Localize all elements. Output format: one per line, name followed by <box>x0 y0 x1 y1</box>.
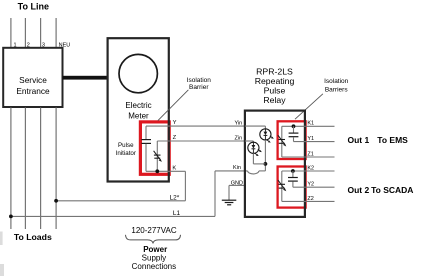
wire: neutral top <box>55 18 57 48</box>
svg-text:Y1: Y1 <box>307 136 314 142</box>
svg-text:Kin: Kin <box>233 165 241 171</box>
wire: K bottom line in meter <box>146 170 185 172</box>
wire: line 1 bottom <box>10 108 12 230</box>
electric meter box <box>108 38 169 181</box>
wire: line 3 top <box>40 18 42 48</box>
wire: line 2 top <box>24 18 26 48</box>
svg-text:Isolation: Isolation <box>187 77 212 84</box>
svg-text:Barrier: Barrier <box>189 84 209 91</box>
meter dial circle <box>119 54 157 92</box>
edge artifact 1 <box>0 232 3 246</box>
wire: line 1 top <box>10 18 12 48</box>
wire: Yin into LED1 <box>245 125 266 127</box>
svg-text:K: K <box>172 165 176 171</box>
capacitor C3 <box>292 171 294 177</box>
red isolation outline 2 in relay <box>278 167 306 208</box>
callout leader line (meter) <box>158 90 189 121</box>
svg-text:Pulse: Pulse <box>118 142 134 149</box>
svg-text:Relay: Relay <box>263 95 286 105</box>
wire: pulse initiator left vertical lower <box>145 144 147 172</box>
wire: pulse initiator transistor vertical <box>156 141 158 171</box>
module 2 left vertical <box>281 171 283 201</box>
svg-text:Barriers: Barriers <box>325 87 349 94</box>
wire: Z line meter to relay <box>157 140 245 142</box>
svg-text:Z: Z <box>173 135 177 141</box>
wire: GND line into relay <box>229 184 245 186</box>
wire: Zin into LED2 <box>245 140 254 142</box>
wire: common cathode drop <box>264 164 266 171</box>
wire: LED1 to common <box>264 140 266 164</box>
wire: K drop to L2 <box>184 171 186 201</box>
svg-text:Z1: Z1 <box>307 151 313 157</box>
red isolation outline in meter (draw under meter border) <box>140 122 169 174</box>
junction: common cathode <box>264 162 268 166</box>
wire: line 3 bottom <box>40 108 42 230</box>
svg-text:To SCADA: To SCADA <box>371 185 413 195</box>
red isolation outline 1 in relay <box>278 121 306 159</box>
wire: L1 line <box>11 215 215 217</box>
svg-text:L2*: L2* <box>170 195 180 202</box>
module 2: wire Y2 <box>293 186 335 188</box>
svg-text:Electric: Electric <box>125 101 151 110</box>
junction: line1 to L1 <box>9 215 13 219</box>
svg-text:To EMS: To EMS <box>377 135 408 145</box>
transistor Q2 bars <box>278 139 285 141</box>
junction: K2 cap node <box>291 169 295 173</box>
transistor Q1 bars <box>154 154 161 156</box>
transistor Q3 bars <box>278 183 285 185</box>
LED D2 diode <box>252 142 254 145</box>
junction: K node <box>155 169 159 173</box>
svg-text:K1: K1 <box>307 121 314 127</box>
capacitor C1 bottom plate <box>141 142 151 144</box>
svg-text:Z2: Z2 <box>307 196 313 202</box>
wire: ground stem <box>228 185 230 200</box>
wire: Y line meter to relay <box>146 125 245 127</box>
svg-text:Service: Service <box>19 75 47 85</box>
junction: NEU to L2* <box>54 199 58 203</box>
edge artifact 2 <box>0 264 4 276</box>
module 1: wire Z1 <box>282 156 335 158</box>
svg-text:Zin: Zin <box>235 135 243 141</box>
callout leader line (relay) <box>295 94 323 119</box>
svg-text:K2: K2 <box>307 165 314 171</box>
svg-text:Out 1: Out 1 <box>348 135 370 145</box>
capacitor C2 <box>293 126 295 132</box>
wire: thick feeder service-to-meter <box>63 76 109 80</box>
svg-text:Initiator: Initiator <box>116 150 136 157</box>
relay box RPR-2LS <box>245 111 305 217</box>
svg-text:To Loads: To Loads <box>14 232 52 242</box>
svg-text:Entrance: Entrance <box>16 86 50 96</box>
optocoupler LED D2 circle <box>248 142 259 153</box>
transistor Q1 diagonal arrow <box>154 151 161 161</box>
svg-text:Y2: Y2 <box>307 181 314 187</box>
wire: Kin line <box>215 170 248 172</box>
brace <box>126 235 181 244</box>
svg-text:Yin: Yin <box>234 121 242 127</box>
wire: neutral bottom <box>55 108 57 230</box>
svg-text:L1: L1 <box>173 210 181 217</box>
module 1: wire K1 <box>282 125 335 127</box>
svg-text:Meter: Meter <box>128 112 149 121</box>
module 1: wire Y1 <box>294 141 335 143</box>
module 2: wire K2 <box>282 170 335 172</box>
optocoupler LED D1 circle <box>260 129 271 140</box>
module 1 left vertical <box>281 126 283 157</box>
LED D2 emission arrows <box>258 149 261 151</box>
svg-text:To Line: To Line <box>18 2 49 12</box>
wire: L1 riser to Kin <box>214 171 216 217</box>
wire: line 2 bottom <box>24 108 26 230</box>
wire: L2* line <box>56 200 185 202</box>
wire: Kin sag inside relay <box>248 171 260 174</box>
module 2: wire Z2 <box>282 200 335 202</box>
svg-text:Connections: Connections <box>132 262 176 271</box>
capacitor C1 top plate <box>141 139 151 141</box>
ground symbol <box>222 199 237 201</box>
transistor Q2 diagonal arrow <box>278 135 285 145</box>
svg-text:Out 2: Out 2 <box>348 185 370 195</box>
svg-text:Y: Y <box>173 120 177 126</box>
wire: Kin continue to common <box>259 170 265 172</box>
svg-text:Isolation: Isolation <box>324 78 349 85</box>
transistor Q3 diagonal arrow <box>278 180 285 190</box>
wire: pulse initiator left vertical upper <box>145 126 147 139</box>
wire: LED2 down and to common <box>252 153 254 164</box>
service entrance box <box>3 48 62 107</box>
junction: K1 cap node <box>292 124 296 128</box>
svg-text:120-277VAC: 120-277VAC <box>131 226 176 235</box>
LED D1 emission arrows <box>270 136 273 138</box>
LED D1 diode <box>264 129 266 132</box>
